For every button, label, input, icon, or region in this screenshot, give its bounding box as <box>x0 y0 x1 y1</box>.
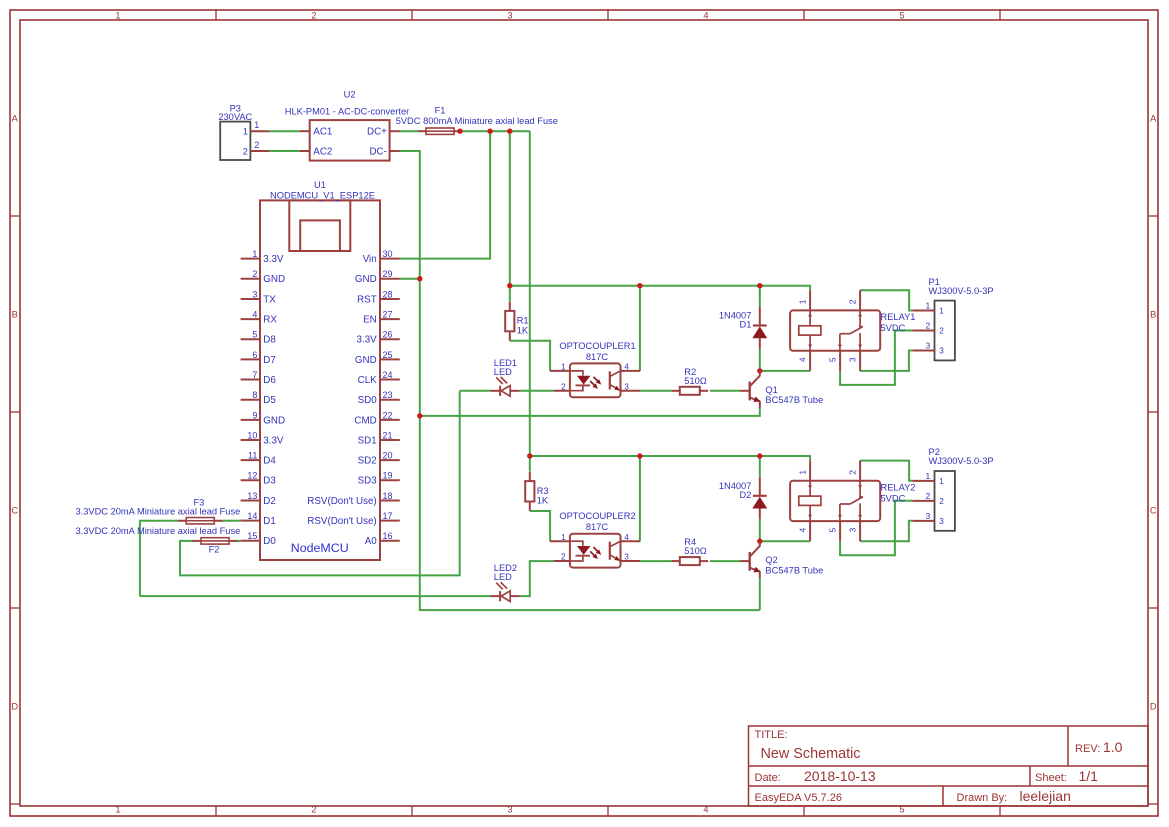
svg-text:F1: F1 <box>435 106 446 116</box>
svg-text:18: 18 <box>383 491 393 501</box>
svg-text:9: 9 <box>252 410 257 420</box>
svg-text:OPTOCOUPLER1: OPTOCOUPLER1 <box>559 341 635 351</box>
svg-text:2: 2 <box>925 321 930 331</box>
svg-text:25: 25 <box>383 350 393 360</box>
svg-text:LED: LED <box>494 367 512 377</box>
svg-text:C: C <box>11 505 18 515</box>
svg-text:1: 1 <box>252 249 257 259</box>
svg-text:NodeMCU: NodeMCU <box>291 541 349 555</box>
svg-text:5: 5 <box>827 357 837 362</box>
svg-text:D8: D8 <box>263 335 276 346</box>
svg-text:D1: D1 <box>740 320 752 330</box>
svg-text:3.3V: 3.3V <box>263 435 284 446</box>
svg-text:1: 1 <box>939 307 944 316</box>
svg-text:R1: R1 <box>517 316 529 326</box>
svg-text:1: 1 <box>115 805 120 815</box>
svg-text:1: 1 <box>561 363 566 372</box>
svg-text:4: 4 <box>703 805 708 815</box>
svg-text:24: 24 <box>383 370 393 380</box>
svg-text:2: 2 <box>925 491 930 501</box>
svg-text:R3: R3 <box>537 486 549 496</box>
svg-text:WJ300V-5.0-3P: WJ300V-5.0-3P <box>929 286 994 296</box>
svg-text:AC1: AC1 <box>313 127 332 138</box>
svg-text:3.3VDC 20mA Miniature axial le: 3.3VDC 20mA Miniature axial lead Fuse <box>75 507 240 517</box>
svg-text:4: 4 <box>252 310 257 320</box>
svg-text:RELAY2: RELAY2 <box>881 482 916 492</box>
svg-text:F2: F2 <box>209 544 220 554</box>
svg-text:B: B <box>1150 309 1156 319</box>
svg-text:5: 5 <box>827 527 837 532</box>
svg-text:D5: D5 <box>263 395 276 406</box>
svg-text:8: 8 <box>252 390 257 400</box>
svg-text:1.0: 1.0 <box>1103 739 1123 755</box>
svg-text:22: 22 <box>383 410 393 420</box>
svg-text:U1: U1 <box>314 180 326 190</box>
svg-text:TITLE:: TITLE: <box>755 729 788 741</box>
svg-text:1: 1 <box>925 471 930 481</box>
svg-text:1: 1 <box>925 301 930 311</box>
svg-text:2: 2 <box>939 497 944 506</box>
svg-text:RSV(Don't Use): RSV(Don't Use) <box>307 516 376 527</box>
svg-text:3: 3 <box>624 382 629 391</box>
svg-text:1K: 1K <box>517 325 529 335</box>
svg-text:CLK: CLK <box>358 375 378 386</box>
svg-text:RELAY1: RELAY1 <box>881 312 916 322</box>
svg-text:7: 7 <box>252 370 257 380</box>
svg-text:Sheet:: Sheet: <box>1035 772 1067 784</box>
svg-text:2: 2 <box>311 805 316 815</box>
svg-text:5VDC: 5VDC <box>881 493 906 503</box>
svg-text:D7: D7 <box>263 355 276 366</box>
svg-text:2: 2 <box>561 553 566 562</box>
svg-text:817C: 817C <box>586 522 609 532</box>
svg-text:EN: EN <box>363 315 377 326</box>
svg-text:12: 12 <box>247 471 257 481</box>
svg-text:230VAC: 230VAC <box>218 112 252 122</box>
svg-text:1: 1 <box>243 127 248 137</box>
svg-text:2: 2 <box>561 382 566 391</box>
svg-text:A: A <box>1150 113 1157 123</box>
svg-text:510Ω: 510Ω <box>684 376 707 386</box>
svg-text:AC2: AC2 <box>313 146 332 157</box>
svg-text:SD1: SD1 <box>358 435 377 446</box>
svg-text:GND: GND <box>355 355 377 366</box>
svg-text:3: 3 <box>939 517 944 526</box>
svg-text:3: 3 <box>507 10 512 20</box>
svg-text:13: 13 <box>247 491 257 501</box>
svg-text:5: 5 <box>899 10 904 20</box>
svg-text:A0: A0 <box>365 536 378 547</box>
svg-text:4: 4 <box>797 527 807 532</box>
svg-text:14: 14 <box>247 511 257 521</box>
svg-text:A: A <box>12 113 19 123</box>
svg-text:10: 10 <box>247 430 257 440</box>
svg-text:817C: 817C <box>586 352 609 362</box>
svg-text:GND: GND <box>355 274 377 285</box>
svg-text:3: 3 <box>624 553 629 562</box>
svg-text:3: 3 <box>507 805 512 815</box>
svg-text:D: D <box>11 701 18 711</box>
svg-text:1: 1 <box>797 299 807 304</box>
svg-text:GND: GND <box>263 415 285 426</box>
svg-text:5VDC: 5VDC <box>881 323 906 333</box>
svg-text:1: 1 <box>939 477 944 486</box>
svg-text:3: 3 <box>848 357 858 362</box>
svg-text:REV:: REV: <box>1075 743 1100 755</box>
svg-text:D3: D3 <box>263 476 276 487</box>
svg-text:3: 3 <box>939 347 944 356</box>
svg-text:Vin: Vin <box>363 254 377 265</box>
svg-text:Drawn By:: Drawn By: <box>957 792 1008 804</box>
svg-text:5: 5 <box>252 330 257 340</box>
svg-text:WJ300V-5.0-3P: WJ300V-5.0-3P <box>929 456 994 466</box>
svg-text:EasyEDA V5.7.26: EasyEDA V5.7.26 <box>755 792 842 804</box>
svg-text:3: 3 <box>925 511 930 521</box>
svg-text:4: 4 <box>703 10 708 20</box>
svg-text:21: 21 <box>383 430 393 440</box>
svg-text:1: 1 <box>115 10 120 20</box>
svg-text:BC547B Tube: BC547B Tube <box>765 395 823 405</box>
svg-text:2: 2 <box>252 269 257 279</box>
svg-text:GND: GND <box>263 274 285 285</box>
svg-text:23: 23 <box>383 390 393 400</box>
svg-text:B: B <box>12 309 18 319</box>
svg-text:U2: U2 <box>344 90 356 100</box>
svg-text:DC-: DC- <box>369 146 386 157</box>
svg-text:2018-10-13: 2018-10-13 <box>804 768 876 784</box>
svg-text:27: 27 <box>383 310 393 320</box>
svg-text:2: 2 <box>847 299 857 304</box>
svg-text:D2: D2 <box>740 490 752 500</box>
svg-text:RST: RST <box>357 294 377 305</box>
svg-text:D0: D0 <box>263 536 276 547</box>
svg-text:2: 2 <box>311 10 316 20</box>
svg-text:SD0: SD0 <box>358 395 378 406</box>
svg-text:19: 19 <box>383 471 393 481</box>
svg-text:1/1: 1/1 <box>1079 768 1099 784</box>
svg-text:Q1: Q1 <box>765 385 777 395</box>
svg-text:D6: D6 <box>263 375 276 386</box>
svg-text:DC+: DC+ <box>367 127 387 138</box>
svg-text:1: 1 <box>561 533 566 542</box>
svg-text:3.3VDC 20mA Miniature axial le: 3.3VDC 20mA Miniature axial lead Fuse <box>75 526 240 536</box>
svg-text:16: 16 <box>383 531 393 541</box>
svg-text:Date:: Date: <box>755 772 781 784</box>
svg-text:Q2: Q2 <box>765 555 777 565</box>
svg-text:3.3V: 3.3V <box>263 254 284 265</box>
svg-text:11: 11 <box>248 451 257 461</box>
svg-text:1: 1 <box>797 470 807 475</box>
svg-text:D4: D4 <box>263 456 276 467</box>
svg-text:OPTOCOUPLER2: OPTOCOUPLER2 <box>559 511 635 521</box>
svg-text:leelejian: leelejian <box>1020 788 1071 804</box>
svg-text:3: 3 <box>925 341 930 351</box>
svg-text:New Schematic: New Schematic <box>761 746 861 762</box>
svg-text:3: 3 <box>848 527 858 532</box>
svg-text:26: 26 <box>383 330 393 340</box>
svg-text:28: 28 <box>383 289 393 299</box>
svg-text:30: 30 <box>383 249 393 259</box>
svg-text:BC547B Tube: BC547B Tube <box>765 565 823 575</box>
svg-text:3: 3 <box>252 289 257 299</box>
svg-text:2: 2 <box>243 146 248 156</box>
svg-text:RX: RX <box>263 315 277 326</box>
svg-text:D2: D2 <box>263 496 276 507</box>
svg-text:C: C <box>1150 505 1157 515</box>
svg-text:15: 15 <box>247 531 257 541</box>
svg-text:1: 1 <box>254 120 259 130</box>
svg-text:3.3V: 3.3V <box>357 335 378 346</box>
svg-text:CMD: CMD <box>354 415 376 426</box>
svg-text:29: 29 <box>383 269 393 279</box>
svg-text:SD2: SD2 <box>358 456 377 467</box>
svg-text:TX: TX <box>263 294 276 305</box>
svg-text:LED: LED <box>494 572 512 582</box>
svg-text:4: 4 <box>624 363 629 372</box>
svg-text:510Ω: 510Ω <box>684 546 707 556</box>
svg-text:20: 20 <box>383 451 393 461</box>
svg-text:RSV(Don't Use): RSV(Don't Use) <box>307 496 376 507</box>
svg-text:4: 4 <box>797 357 807 362</box>
svg-text:NODEMCU_V1_ESP12E: NODEMCU_V1_ESP12E <box>270 190 375 200</box>
svg-text:HLK-PM01 - AC-DC-converter: HLK-PM01 - AC-DC-converter <box>285 106 410 116</box>
svg-text:2: 2 <box>847 470 857 475</box>
svg-text:SD3: SD3 <box>358 476 378 487</box>
svg-text:D: D <box>1150 701 1157 711</box>
svg-text:6: 6 <box>252 350 257 360</box>
svg-text:1K: 1K <box>537 496 549 506</box>
svg-text:5VDC 800mA Miniature axial lea: 5VDC 800mA Miniature axial lead Fuse <box>396 116 558 126</box>
svg-text:D1: D1 <box>263 516 276 527</box>
svg-text:17: 17 <box>383 511 393 521</box>
svg-text:2: 2 <box>939 327 944 336</box>
svg-text:4: 4 <box>624 533 629 542</box>
svg-text:2: 2 <box>254 140 259 150</box>
